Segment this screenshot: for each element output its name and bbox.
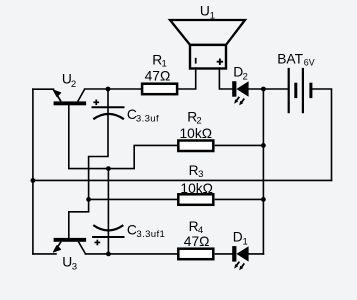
node: R3 right rail junction [261, 197, 266, 202]
node: R3 / U3 base / C1 junction [86, 197, 91, 202]
wire: battery negative down right side [312, 89, 332, 180]
wire: U3 collector to R4 [86, 253, 177, 255]
transistor U2 [53, 89, 86, 105]
wire: node down to U3 base [69, 199, 89, 237]
node: C1 top junction [106, 87, 111, 92]
capacitor C2 curved plate [93, 225, 123, 230]
svg-text:3.3uf1: 3.3uf1 [136, 229, 165, 240]
wire: speaker plus lead to D2 [219, 68, 232, 89]
wire: U2 collector to R1 [85, 88, 141, 90]
svg-text:2: 2 [243, 72, 248, 83]
wire: D2 to battery positive [249, 88, 288, 90]
capacitor C2 bottom plate [92, 236, 124, 238]
wire: R4 to D1 [216, 253, 233, 255]
svg-text:D: D [233, 229, 243, 244]
LED D1 [234, 246, 248, 270]
svg-text:R: R [189, 163, 199, 178]
svg-text:1: 1 [243, 236, 248, 247]
resistor R2 [178, 141, 213, 152]
wire: C1 lead through plates jog to R3 node [89, 89, 108, 199]
svg-text:3: 3 [72, 262, 77, 273]
svg-text:1: 1 [210, 10, 215, 21]
speaker U1 plus terminal mark [217, 61, 223, 63]
wire: R3 right to positive rail [216, 198, 264, 200]
svg-text:BAT: BAT [277, 51, 303, 66]
wire: R1 to speaker minus lead [178, 68, 196, 89]
wire: R3 left from node [89, 198, 177, 200]
resistor R4 [178, 249, 213, 260]
capacitor C1 plus sign [93, 100, 99, 106]
speaker U1 [170, 20, 245, 69]
svg-text:2: 2 [71, 79, 76, 90]
capacitor C1 curved plate [93, 114, 124, 119]
node: C2 bottom rail junction [106, 252, 111, 257]
resistor R3 [178, 194, 213, 205]
node: U2 base / C2 junction [106, 166, 111, 171]
svg-text:C: C [127, 223, 137, 238]
svg-text:3: 3 [198, 169, 203, 180]
svg-text:47Ω: 47Ω [145, 69, 171, 84]
wire: emitter rail bottom horizontal [33, 179, 332, 181]
capacitor C2 plus sign [95, 240, 101, 246]
capacitor C1 top plate [92, 106, 125, 108]
svg-text:47Ω: 47Ω [184, 234, 210, 249]
wire: left emitter rail vertical [32, 89, 34, 254]
LED D2 [234, 81, 248, 105]
node: R2 right rail junction [261, 143, 266, 148]
wire: U2 emitter to left rail corner [33, 88, 54, 90]
transistor U3 [53, 238, 86, 254]
battery BAT [289, 68, 311, 113]
wire: R2 right to positive rail [216, 144, 264, 146]
svg-text:3.3uf: 3.3uf [136, 113, 159, 124]
wire: base node down through C2 to bottom rail [107, 169, 109, 254]
resistor R1 [142, 84, 177, 95]
svg-text:10kΩ: 10kΩ [180, 181, 213, 196]
node: emitter rail left junction [31, 178, 36, 183]
svg-text:10kΩ: 10kΩ [180, 126, 213, 141]
svg-text:U: U [200, 4, 210, 19]
wire: positive rail vertical [262, 89, 264, 254]
node: positive rail top junction [261, 87, 266, 92]
svg-text:6V: 6V [304, 58, 315, 68]
wire: U2 base down and over to R2 [69, 105, 177, 168]
wire: D1 to positive rail corner [249, 253, 264, 255]
speaker U1 minus terminal mark [195, 58, 197, 64]
wire: U3 emitter to left rail [33, 253, 56, 255]
